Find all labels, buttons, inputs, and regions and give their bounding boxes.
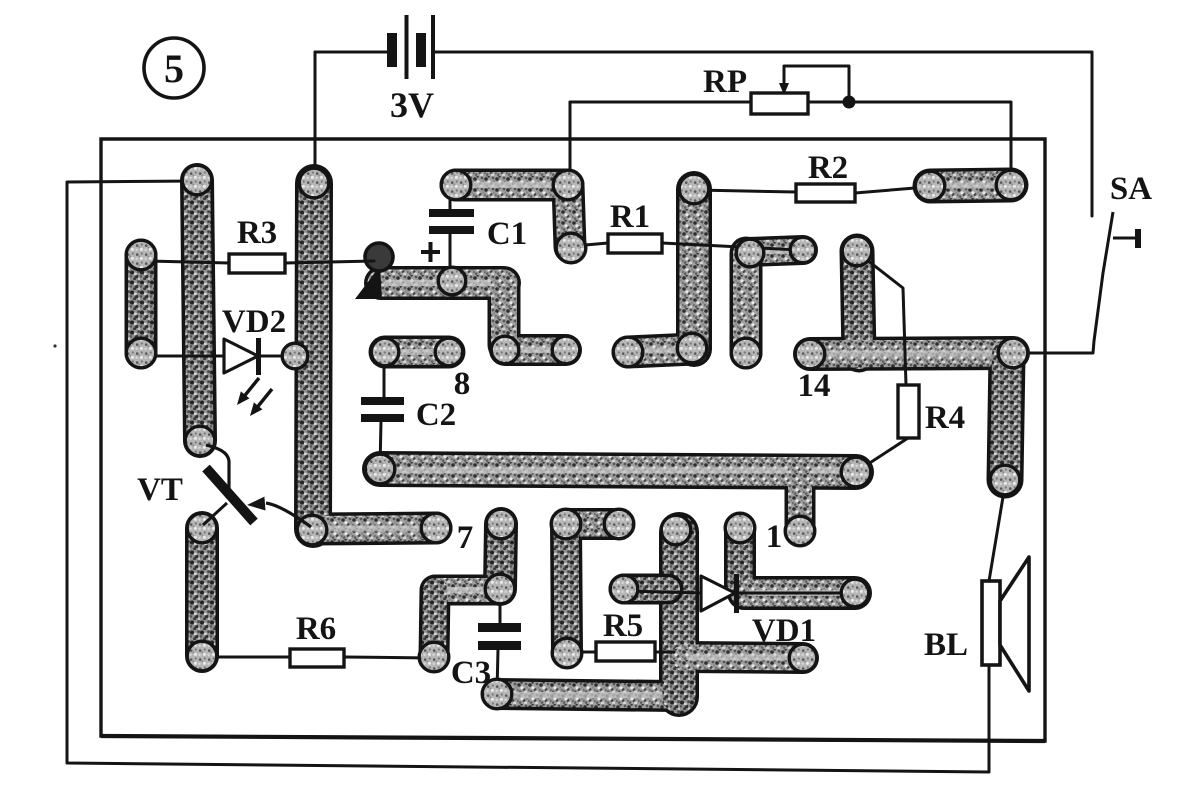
svg-text:C1: C1 bbox=[487, 216, 527, 252]
svg-text:R1: R1 bbox=[610, 199, 650, 235]
svg-text:1: 1 bbox=[766, 519, 783, 555]
svg-text:BL: BL bbox=[924, 627, 968, 663]
svg-text:R6: R6 bbox=[296, 611, 336, 647]
svg-text:3V: 3V bbox=[390, 85, 434, 125]
svg-text:R2: R2 bbox=[808, 150, 848, 186]
svg-text:R3: R3 bbox=[237, 215, 277, 251]
svg-text:SA: SA bbox=[1110, 171, 1152, 207]
svg-text:VD1: VD1 bbox=[752, 613, 816, 649]
svg-text:VD2: VD2 bbox=[222, 304, 286, 340]
svg-text:7: 7 bbox=[457, 520, 474, 556]
svg-text:R5: R5 bbox=[603, 608, 643, 644]
svg-text:8: 8 bbox=[454, 366, 471, 402]
svg-text:C3: C3 bbox=[451, 655, 491, 691]
svg-text:5: 5 bbox=[164, 46, 184, 91]
svg-text:14: 14 bbox=[798, 368, 831, 404]
svg-text:VT: VT bbox=[137, 472, 183, 508]
svg-text:RP: RP bbox=[703, 64, 747, 100]
svg-text:R4: R4 bbox=[925, 400, 965, 436]
svg-text:C2: C2 bbox=[416, 397, 456, 433]
